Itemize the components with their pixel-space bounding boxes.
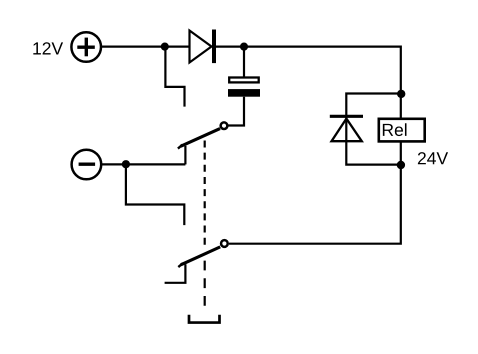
wire: S2 fixed contact to relay bottom rail [229, 165, 401, 244]
voltage source V2 (-) [72, 150, 102, 180]
wire: relay K1 bottom to node J4 [400, 143, 402, 166]
wire: V2 minus terminal rail to S1 pole [101, 163, 185, 165]
wire: J3 down to relay K1 top [400, 94, 402, 118]
diode D1 [190, 30, 217, 64]
label "24V" [418, 152, 448, 164]
wire: V1 plus terminal to diode D1 anode [101, 45, 190, 47]
node J5 [122, 160, 130, 168]
node J2 [240, 43, 248, 51]
node J3 [397, 90, 405, 98]
wire: C1 bottom to switch S1 moving contact [228, 97, 244, 126]
capacitor C1 (polarized) [228, 78, 260, 97]
wire: D1 cathode to top-right corner down to node J3 [216, 47, 401, 94]
wire: J2 down to capacitor C1 [243, 47, 245, 77]
node J4 [397, 161, 405, 169]
relay coil K1 [379, 119, 425, 142]
mechanical link (dashed) between S1, S2 and actuator [204, 141, 206, 245]
label "12V" [33, 42, 63, 54]
label "Rel" [383, 123, 407, 136]
flyback diode D2 with connecting wires [330, 94, 401, 165]
actuator bracket [189, 315, 220, 323]
switch S2 (changeover contact) [165, 240, 228, 283]
node J1 [161, 43, 169, 51]
wire stub: J1 to S1 upper fixed contact [165, 47, 184, 107]
switch S1 (changeover contact) [178, 122, 227, 164]
voltage source V1 (+) 12V [71, 32, 101, 62]
wire: J5 branch down to S2 upper fixed contact [126, 164, 184, 225]
